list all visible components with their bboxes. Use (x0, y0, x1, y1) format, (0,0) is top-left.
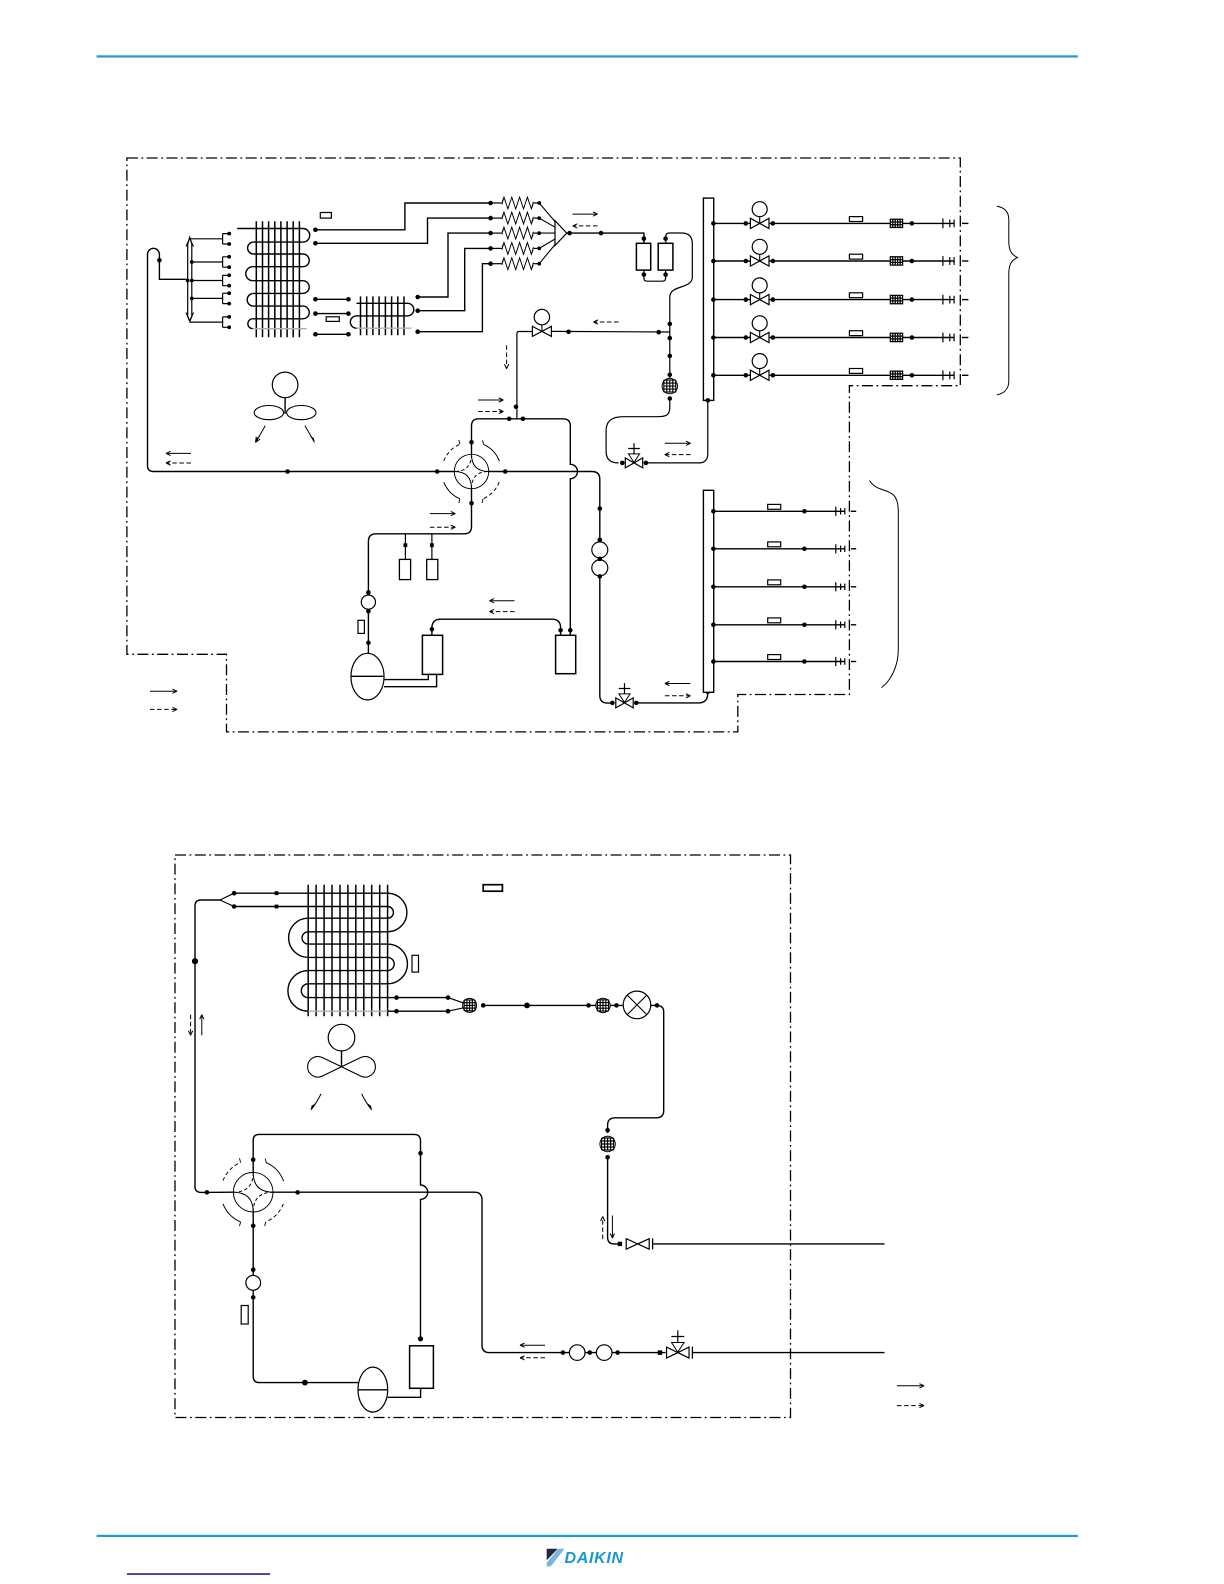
capillary tube zigzag 4 (491, 247, 502, 249)
compressor CM1 (inverter) (422, 635, 442, 674)
heat exchanger coil E1 fins (top unit) (256, 221, 299, 337)
accumulator ACC2 (358, 1367, 388, 1412)
fan F1 airflow arrow left (256, 426, 265, 442)
gas branch 2 field pipe stub (851, 548, 856, 550)
gas branch 1 label box (768, 504, 781, 509)
strainer (mesh) S1 on liquid line (662, 378, 677, 393)
liquid branch 4 pipe (714, 337, 954, 339)
legend arrows: cooling (solid) / heating (dashed) — top diagram (150, 690, 177, 692)
accumulator ACC1 (351, 653, 384, 700)
liquid branch 1 strainer (890, 219, 902, 227)
suction arrows (cooling solid / heating dashed) (166, 452, 191, 454)
hot gas bypass riser (517, 332, 533, 419)
gas branch 5 field pipe stub (851, 661, 856, 663)
liquid refrigerant header H1 (top) (703, 198, 713, 400)
check valve ball CV2 (592, 560, 608, 576)
outdoor unit boundary (dash-dot) — bottom diagram (175, 855, 791, 1418)
liquid branch 5 flare connection (943, 370, 954, 380)
liquid branch 3 strainer (890, 295, 902, 303)
heat exchanger coil E3 return bends (288, 893, 408, 1011)
accumulator outlet pipes to compressor (384, 674, 437, 686)
heat exchanger coil E1 return bends (246, 229, 310, 329)
liquid branch 3 electronic expansion valve (750, 295, 769, 305)
strainer S3 (596, 998, 610, 1012)
distributor branch line 3 (192, 280, 223, 282)
page bottom rule (teal) (97, 1535, 1078, 1537)
capillary tube zigzag 5 (491, 263, 502, 265)
oil equalization pipe from 4-way valve bottom (368, 489, 471, 653)
pipe EV2 down to strainer S4 (608, 1005, 664, 1133)
gas header feed arrows (cooling solid left / heating dashed right) (665, 683, 691, 685)
gas branch 2 pipe (714, 548, 845, 550)
Daikin logo flag (547, 1549, 558, 1560)
subcool heat exchanger coil E2 fins (361, 296, 405, 335)
liquid service valve SV4 with service port and flare (667, 1347, 690, 1358)
four-way valve V4W-1 (444, 440, 500, 503)
capillary tube zigzag 2 (491, 217, 502, 219)
brace: to indoor units (liquid branches) (997, 206, 1018, 395)
discharge loop pipe 4-way valve top to compressor (253, 1134, 427, 1338)
liquid pipe with sight glasses (496, 1352, 666, 1354)
muffler bottom U pipe (644, 270, 666, 281)
gas branch 1 flare connection (836, 507, 845, 516)
riser flow arrows (dashed down / solid up) (190, 1015, 192, 1036)
suction manifold pipe between compressors (432, 619, 561, 635)
muffler M1 (636, 243, 650, 270)
liquid branch 2 flare connection (943, 256, 954, 266)
heat exchanger coil E3 tube passes (234, 893, 388, 997)
liquid branch 3 field pipe stub (962, 299, 968, 301)
liquid branch 1 label box (849, 217, 862, 222)
page top rule (teal) (97, 55, 1078, 57)
capillary fork 5 (223, 317, 228, 327)
coil E3 inlet distributor fork (220, 893, 234, 906)
liquid branch 2 field pipe stub (962, 260, 968, 262)
suction pipe 4-way valve bottom to accumulator (253, 1212, 358, 1383)
sight glass G2 (596, 1345, 612, 1361)
flow arrow (cooling) after triangle (573, 213, 598, 215)
fan F1 airflow arrow right (305, 426, 314, 442)
propeller fan F1 (top unit) (254, 372, 316, 420)
liquid branch 5 pipe (714, 374, 954, 376)
check valve ball CV1 (592, 542, 608, 558)
sensor label box TH2 (326, 317, 339, 322)
capillary fork 3 (223, 275, 228, 285)
distributor branch line 5 (190, 321, 223, 323)
liquid branch 4 field pipe stub (962, 337, 968, 339)
sight glass G1 (569, 1345, 585, 1361)
compressor CM2 (standard) (556, 635, 576, 673)
four-way valve V4W-2 (bottom unit) (223, 1158, 284, 1226)
flow arrows at SV3 (dashed up / solid down) (602, 1217, 604, 1240)
gas field pipe (bottom unit) (653, 1243, 885, 1245)
coil tap line B to capillary 2 (315, 218, 490, 243)
left riser pipe from coil inlet (195, 900, 220, 1192)
liquid branch 4 flare connection (943, 333, 954, 343)
suction line sensor (366, 590, 371, 595)
svg-text:DAIKIN: DAIKIN (565, 1550, 624, 1567)
capillary fork 4 (223, 293, 228, 303)
gas service valve SV3 with flare (618, 1242, 622, 1246)
distributor D1 arrowhead top (186, 238, 194, 246)
gas branch 1 field pipe stub (851, 510, 856, 512)
gas branch 2 label box (768, 542, 781, 547)
liquid branch 3 flare connection (943, 295, 954, 305)
suction line sensor (bottom unit) (246, 1275, 261, 1290)
jumper pipe big coil to subcool coil 1 (315, 298, 348, 300)
liquid branch 1 electronic expansion valve (750, 218, 769, 228)
liquid branch 5 label box (849, 369, 862, 374)
coil E3 exit pipes to strainer (388, 997, 397, 999)
gas branch 3 field pipe stub (851, 586, 856, 588)
high pressure switch HPS1 (404, 534, 406, 560)
gas branch 3 label box (768, 580, 781, 585)
gas branch 5 flare connection (836, 657, 845, 666)
liquid branch 5 strainer (890, 371, 902, 379)
distributor branch line 2 (192, 261, 223, 263)
fan F2 airflow arrow left (311, 1094, 321, 1110)
fan F2 airflow arrow right (362, 1094, 372, 1110)
high pressure switch HPS2 (431, 534, 433, 560)
element label box (bottom unit) (241, 1306, 248, 1325)
liquid branch 5 electronic expansion valve (750, 370, 769, 380)
muffler M2 (658, 243, 673, 270)
electronic expansion valve EV2 (circle-X) (623, 991, 651, 1019)
liquid line to stop valve (606, 399, 670, 463)
sensor label box TH1 (320, 213, 331, 219)
liquid branch 2 label box (849, 254, 862, 259)
liquid branch 2 strainer (890, 257, 902, 265)
distributor triangle header (539, 203, 555, 264)
liquid branch 4 strainer (890, 333, 902, 341)
distributor D1 arrowhead bottom (186, 313, 194, 321)
liquid branch 5 field pipe stub (962, 374, 968, 376)
strainer S2 after coil (463, 998, 477, 1012)
refrigerant distributor (capsule) D1 (188, 237, 192, 321)
coil tap line D to capillary 4 (418, 248, 491, 310)
label box (bottom unit) (483, 885, 502, 892)
coil tap line C to capillary 3 (418, 233, 491, 297)
bypass flow arrow (heating, dashed) (594, 321, 619, 323)
gas branch 1 pipe (714, 510, 845, 512)
pipe 4-way valve E to liquid drop (273, 1192, 496, 1352)
hook junction dot (157, 258, 162, 263)
electronic expansion valve EV1 (bypass) (532, 326, 551, 336)
bypass pipe to liquid line (551, 330, 669, 333)
small element label right of coil E3 (412, 955, 419, 972)
distributor branch line 4 (192, 297, 223, 299)
gas branch 2 flare connection (836, 544, 845, 553)
flow arrow (heating, dashed) after triangle (573, 225, 598, 227)
gas service stop valve SV2 (610, 701, 615, 706)
propeller fan F2 (bottom unit) (308, 1024, 376, 1077)
gas branch 5 label box (768, 655, 781, 660)
pipe stop valve SV1 to liquid header (646, 400, 708, 463)
suction pipe from coil to 4-way valve (154, 471, 455, 473)
liquid pipe to expansion valve (483, 1004, 623, 1006)
manifold arrows (cooling solid / heating dashed) (490, 600, 515, 602)
gas pipe to gas stop valve (600, 576, 612, 703)
gas branch 3 flare connection (836, 582, 845, 591)
liquid branch 2 pipe (714, 260, 954, 262)
liquid field pipe (bottom unit) (692, 1352, 884, 1354)
liquid pipe to gas... down to service valve SV3 (608, 1157, 619, 1244)
liquid line after triangle (567, 233, 644, 243)
brace: to indoor units (gas branches) (870, 481, 899, 688)
subcool coil E2 bottom pass (light) (357, 327, 412, 329)
strainer S4 (600, 1136, 615, 1151)
liquid line arrows (cooling solid / heating dashed) (520, 1344, 545, 1346)
subcool coil E2 tube passes and bends (350, 303, 413, 328)
heat exchanger coil E3 fins (bottom unit) (308, 885, 387, 1017)
heat exchanger coil E3 bottom pass (light) (308, 1010, 387, 1012)
gas branch 4 label box (768, 618, 781, 623)
gas refrigerant header H2 (bottom) (703, 490, 713, 692)
liquid branch 1 pipe (714, 222, 954, 224)
liquid branch 2 electronic expansion valve (750, 256, 769, 266)
crankcase element label (358, 620, 364, 633)
gas branch 4 flare connection (836, 620, 845, 629)
flow arrow (cooling) at liquid header feed (665, 442, 691, 444)
liquid drop line junction dots (668, 322, 673, 327)
compressor CM3 (410, 1346, 434, 1389)
flow arrow (heating, dashed) at liquid header feed (665, 454, 691, 456)
outdoor unit boundary (dash-dot) — top diagram (127, 158, 960, 732)
accumulator ACC2 outlet to compressor CM3 (388, 1388, 421, 1397)
liquid branch 4 electronic expansion valve (750, 332, 769, 342)
liquid branch 3 pipe (714, 299, 954, 301)
capillary tube zigzag 3 (491, 232, 502, 234)
liquid branch 1 flare connection (943, 219, 954, 229)
capillary fork 1 (223, 234, 228, 244)
capillary fork 2 (223, 257, 228, 267)
muffler M2 outlet pipe to liquid drop (666, 233, 693, 378)
pipe 4-way valve W to left riser (201, 1191, 233, 1193)
heat exchanger coil E1 bottom pass (light) (253, 328, 307, 330)
bypass flow arrow (dashed, down) (506, 345, 508, 368)
gas branch 4 field pipe stub (851, 624, 856, 626)
4-way valve S-port arrows (cooling solid / heating dashed) (430, 513, 455, 515)
liquid branch 4 label box (849, 331, 862, 336)
pipe stop valve SV2 to gas header (636, 692, 707, 703)
liquid branch 1 field pipe stub (962, 222, 968, 224)
discharge pipe 4-way valve top loop (472, 419, 578, 636)
coil tap line E to capillary 5 (418, 264, 491, 332)
gas branch 3 pipe (714, 586, 845, 588)
gas branch 4 pipe (714, 624, 845, 626)
suction pipe hook from distributor (148, 248, 188, 471)
legend arrows: cooling (solid) / heating (dashed) — bottom diagram (897, 1385, 924, 1387)
coil tap line A to capillary 1 (315, 203, 490, 230)
discharge arrows (cooling solid / heating dashed) (478, 399, 503, 401)
gas branch 5 pipe (714, 661, 845, 663)
footer link rule (navy) (127, 1573, 270, 1575)
jumper pipe big coil to subcool coil 3 (315, 333, 348, 335)
capillary tube zigzag 1 (491, 202, 502, 204)
jumper pipe big coil to subcool coil 2 (315, 313, 348, 315)
liquid branch 3 label box (849, 293, 862, 298)
gas pipe 4-way valve to gas header drop (489, 472, 600, 542)
distributor D1 junction dots (186, 279, 190, 283)
distributor branch line 1 (190, 238, 223, 240)
heat exchanger coil E1 tube passes (237, 229, 303, 319)
liquid service stop valve SV1 (620, 461, 625, 466)
